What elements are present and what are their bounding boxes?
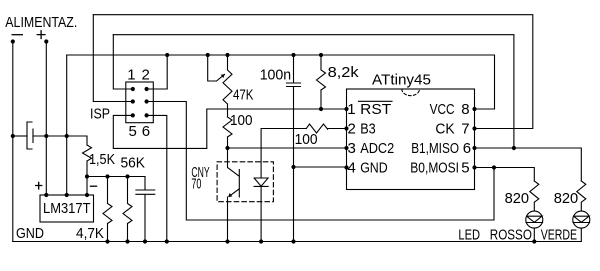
node MOSI junction	[492, 165, 496, 169]
node cap row junctions	[11, 134, 15, 138]
svg-text:47K: 47K	[233, 86, 254, 103]
capacitor 100n	[287, 55, 301, 242]
svg-text:4,7K: 4,7K	[76, 225, 104, 242]
svg-text:6: 6	[463, 140, 471, 157]
wire ATtiny pin5 MOSI row	[475, 168, 535, 182]
wire B3 row y128.5	[261, 128, 346, 130]
resistor 4,7K	[103, 177, 112, 242]
svg-text:GND: GND	[360, 160, 388, 177]
resistor 100 horizontal	[306, 124, 327, 133]
wire ADC2 row y148	[228, 147, 347, 149]
node VCC rail junctions	[165, 53, 169, 57]
capacitor C2 under ADJ row	[136, 177, 155, 242]
led VERDE	[573, 211, 590, 228]
svg-text:ALIMENTAZ.: ALIMENTAZ.	[5, 14, 77, 31]
label plus sign supply	[37, 30, 46, 39]
mcu RST overline	[359, 100, 393, 102]
node ATtiny left pins	[344, 107, 348, 111]
svg-text:6: 6	[142, 123, 150, 140]
svg-text:1: 1	[347, 101, 355, 118]
wire ATtiny pin6 MISO row	[475, 148, 582, 181]
svg-text:LM317T: LM317T	[43, 200, 91, 217]
wire VCC top rail y55	[67, 55, 495, 109]
mcu ATtiny45 box	[347, 89, 475, 190]
node ISP pins	[131, 87, 135, 91]
svg-text:ATtiny45: ATtiny45	[372, 71, 431, 88]
potentiometer 47K wiper arrow	[217, 74, 225, 81]
resistor 8,2k	[317, 55, 326, 109]
resistor 56K	[123, 177, 132, 242]
svg-text:ROSSO: ROSSO	[490, 226, 532, 243]
svg-text:ISP: ISP	[90, 106, 110, 123]
node GND rail junctions	[105, 239, 109, 243]
node minus terminal	[11, 39, 15, 43]
svg-text:70: 70	[191, 176, 201, 193]
svg-text:2: 2	[142, 66, 150, 83]
svg-text:GND: GND	[16, 225, 44, 242]
wire SCK rail to ISP pin3	[93, 15, 133, 102]
svg-text:56K: 56K	[121, 154, 146, 171]
svg-text:100: 100	[230, 112, 253, 129]
potentiometer 47K body	[223, 55, 232, 117]
wire ISP pin2 to VCC	[147, 55, 168, 89]
wire potentiometer wiper branch	[208, 55, 217, 81]
node RST junction	[319, 107, 323, 111]
svg-text:VCC: VCC	[430, 101, 455, 118]
svg-text:VERDE: VERDE	[541, 226, 577, 243]
node ATtiny right pins	[472, 107, 476, 111]
capacitor C1 electrolytic	[27, 122, 33, 149]
svg-text:100n: 100n	[260, 66, 292, 83]
optocoupler CNY70 dashed box	[217, 162, 273, 202]
wire ISP pin6 to GND	[147, 115, 167, 241]
optocoupler CNY70 led	[254, 129, 268, 242]
svg-text:4: 4	[348, 160, 356, 177]
connector ISP box	[126, 82, 154, 123]
svg-text:820: 820	[554, 190, 579, 207]
wire MISO rail to ISP pin1	[113, 35, 133, 89]
node GND pin junction	[291, 165, 295, 169]
led ROSSO	[526, 211, 543, 228]
optocoupler CNY70 phototransistor	[228, 148, 240, 197]
regulator LM317T box	[40, 195, 94, 222]
resistor 820 left	[530, 181, 539, 211]
svg-text:7: 7	[461, 121, 469, 138]
svg-text:B1,MISO: B1,MISO	[411, 140, 459, 157]
svg-text:CK: CK	[435, 121, 454, 138]
svg-text:820: 820	[505, 190, 529, 207]
mcu pin1 notch arc	[402, 89, 420, 96]
svg-text:RST: RST	[360, 101, 391, 118]
node MISO junction	[512, 146, 516, 150]
resistor 820 right	[577, 181, 586, 211]
node plus terminal	[44, 39, 48, 43]
wire SCK top rail y14.7	[93, 15, 533, 129]
svg-text:100: 100	[295, 131, 318, 148]
wire ISP pin5 RST route	[113, 109, 346, 148]
wire VCC to LM317 middle pin	[66, 55, 68, 195]
wire ATtiny pin4 GND row	[294, 166, 347, 168]
label minus sign supply	[12, 34, 24, 36]
wire negative supply rail left	[12, 42, 14, 242]
wire positive supply rail	[45, 42, 47, 196]
svg-text:B0,MOSI: B0,MOSI	[410, 160, 459, 177]
svg-text:1,5K: 1,5K	[89, 151, 115, 168]
svg-text:8: 8	[461, 101, 469, 118]
label minus sign LM317	[90, 185, 97, 187]
svg-text:B3: B3	[360, 121, 376, 138]
svg-text:5: 5	[461, 160, 469, 177]
svg-text:LED: LED	[458, 226, 480, 243]
wire ADJ row y176.5	[87, 177, 145, 196]
svg-text:8,2k: 8,2k	[328, 64, 360, 81]
wire MISO rail y34.7	[113, 35, 514, 148]
node ADC2 junction	[225, 146, 229, 150]
svg-text:5: 5	[129, 123, 137, 140]
wire capacitor row y136 left	[13, 135, 27, 137]
resistor 100 vertical	[223, 117, 232, 148]
wire GND bottom rail	[13, 241, 582, 243]
svg-text:3: 3	[348, 140, 356, 157]
svg-text:ADC2: ADC2	[360, 140, 394, 157]
svg-text:1: 1	[127, 66, 135, 83]
resistor 1,5K	[83, 145, 92, 177]
label plus sign LM317	[35, 182, 42, 190]
svg-text:2: 2	[348, 121, 356, 138]
node LM317 pins	[44, 193, 48, 197]
wire capacitor row y136 right	[33, 136, 87, 145]
node ADJ row junctions	[85, 174, 89, 178]
wire ISP pin4 MOSI route	[147, 102, 494, 221]
